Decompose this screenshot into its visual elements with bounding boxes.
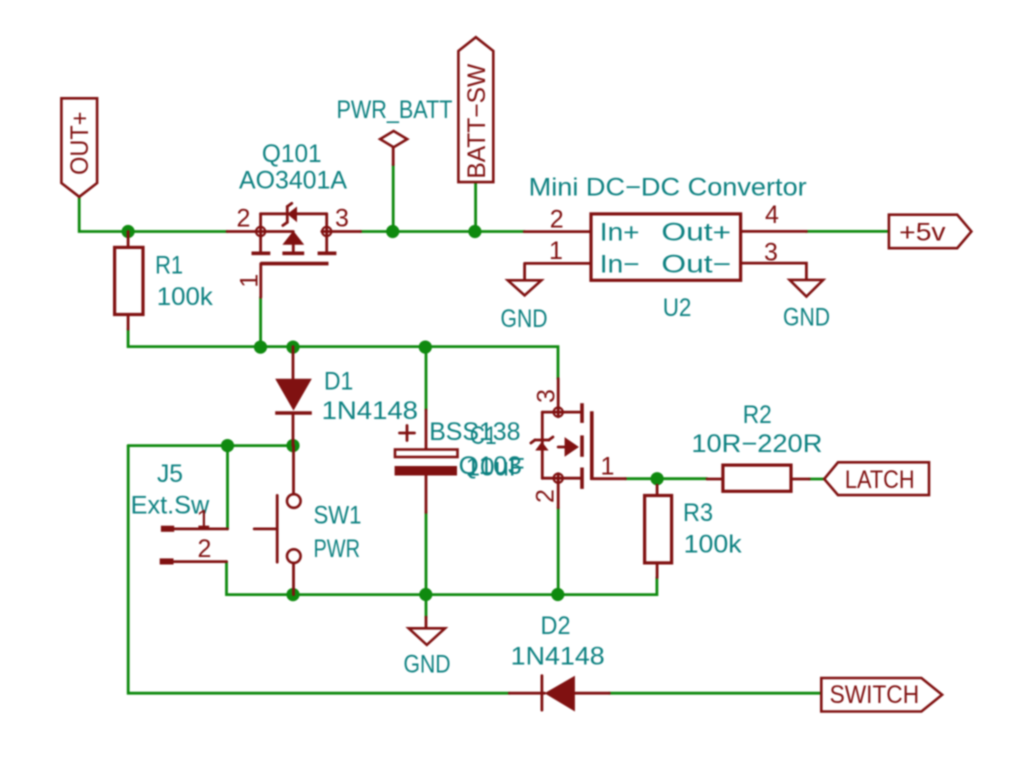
svg-text:2: 2 [550,206,564,234]
svg-text:3: 3 [335,204,349,232]
svg-text:1: 1 [601,453,615,481]
svg-text:2: 2 [532,489,560,503]
svg-text:D1: D1 [324,368,353,396]
svg-text:2: 2 [198,535,212,563]
svg-text:BATT−SW: BATT−SW [463,63,491,178]
svg-text:Out+: Out+ [661,219,731,247]
svg-text:In−: In− [600,250,640,278]
svg-text:SW1: SW1 [314,502,362,530]
svg-text:10R−220R: 10R−220R [691,430,822,458]
svg-text:GND: GND [501,305,548,333]
svg-text:Mini DC−DC Convertor: Mini DC−DC Convertor [529,174,807,202]
svg-text:Q101: Q101 [262,140,322,168]
svg-text:2: 2 [237,204,251,232]
svg-text:R1: R1 [155,252,183,280]
svg-text:SWITCH: SWITCH [830,681,920,709]
svg-text:3: 3 [533,389,561,403]
svg-text:100k: 100k [684,531,743,559]
svg-text:GND: GND [783,304,830,332]
svg-text:1: 1 [549,237,563,265]
svg-text:R3: R3 [683,499,713,527]
svg-text:4: 4 [765,201,779,229]
svg-text:D2: D2 [541,612,571,640]
svg-text:AO3401A: AO3401A [239,167,347,195]
svg-text:+5v: +5v [899,219,946,247]
svg-text:1N4148: 1N4148 [322,397,418,425]
svg-text:R2: R2 [743,401,772,429]
svg-text:U2: U2 [663,294,692,322]
svg-text:In+: In+ [600,219,640,247]
svg-text:10uF: 10uF [466,454,525,482]
svg-text:3: 3 [764,239,778,267]
svg-text:100k: 100k [157,283,214,311]
svg-text:PWR_BATT: PWR_BATT [337,96,453,124]
svg-text:OUT+: OUT+ [66,112,94,175]
svg-text:PWR: PWR [314,535,361,563]
svg-text:1: 1 [197,506,211,534]
svg-text:C1: C1 [470,422,497,450]
svg-text:Out−: Out− [661,250,731,278]
svg-text:GND: GND [404,651,451,679]
svg-text:LATCH: LATCH [845,466,915,494]
svg-text:J5: J5 [157,460,183,488]
svg-text:1N4148: 1N4148 [511,643,605,671]
svg-text:1: 1 [236,274,264,288]
